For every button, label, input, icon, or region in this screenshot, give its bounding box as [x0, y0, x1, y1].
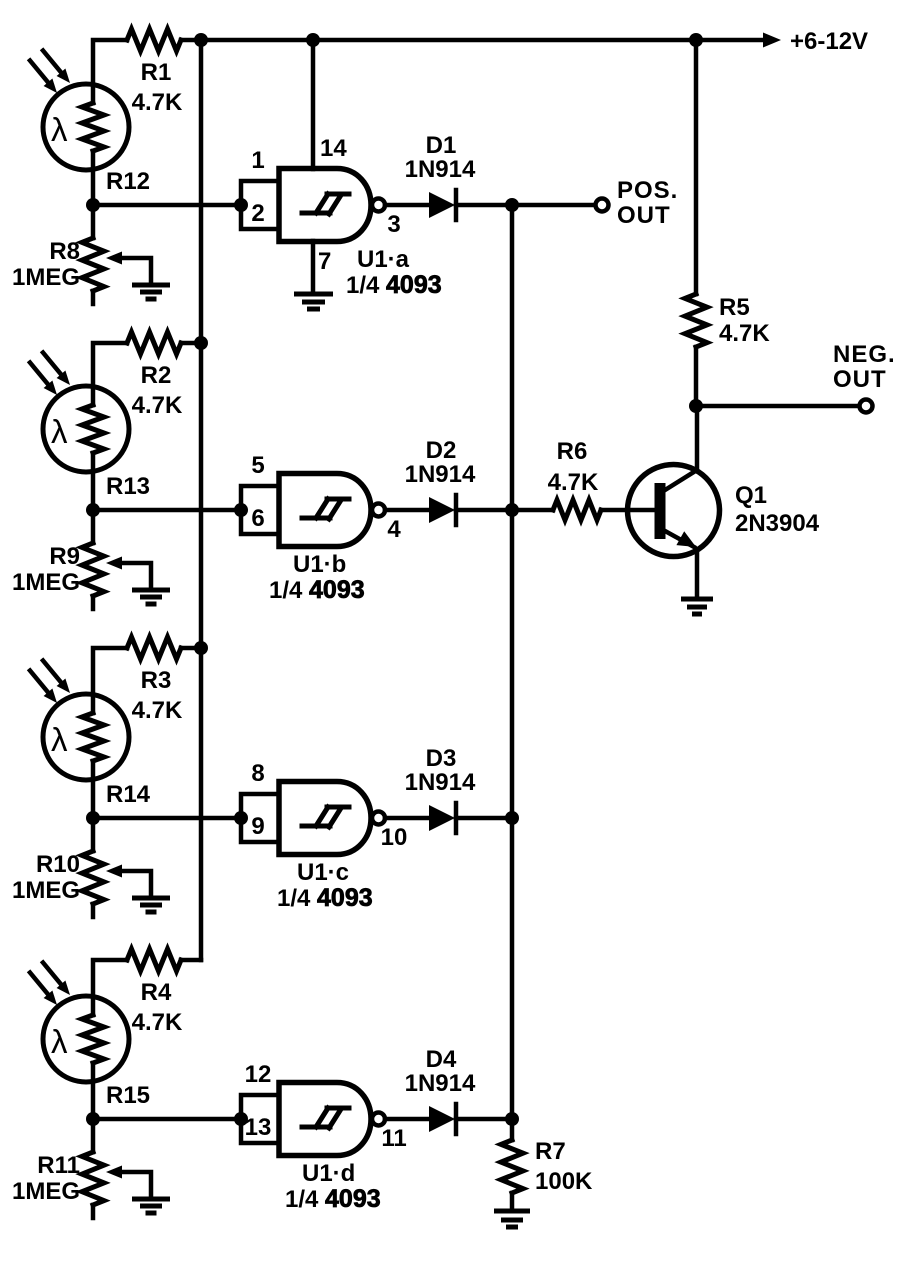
svg-text:D2: D2 [426, 437, 457, 464]
wire [181, 958, 201, 963]
photocell R15 (LDR) [30, 963, 150, 1110]
svg-text:14: 14 [320, 135, 347, 162]
node collector / NEG OUT [689, 399, 703, 413]
node gate input [234, 503, 248, 517]
photocell R13 (LDR) [30, 353, 150, 501]
wire rail to R5 [694, 40, 699, 294]
potentiometer R9 1MEG [12, 510, 151, 609]
transistor Q1 2N3904 [628, 406, 820, 598]
svg-text:13: 13 [245, 1114, 272, 1141]
svg-text:1N914: 1N914 [405, 461, 476, 488]
svg-text:U1·b: U1·b [293, 551, 346, 578]
svg-text:OUT: OUT [617, 202, 671, 229]
photocell R12 (LDR) [30, 51, 150, 196]
diode D4 1N914 [405, 1046, 476, 1134]
photocell R14 (LDR) [30, 661, 151, 809]
svg-text:D3: D3 [426, 745, 457, 772]
diode D2 1N914 [405, 437, 476, 525]
svg-text:R14: R14 [106, 781, 151, 808]
svg-text:1: 1 [251, 147, 264, 174]
ground (pot wiper) [132, 1199, 170, 1213]
wire section 2 top corner [93, 343, 127, 405]
svg-text:R10: R10 [36, 851, 80, 878]
node D4 bus junction [505, 1112, 519, 1126]
wire R6 to base [601, 508, 654, 513]
svg-text:2: 2 [251, 200, 264, 227]
svg-text:R9: R9 [49, 543, 80, 570]
wire D4 to bus [456, 1117, 512, 1122]
node R13/R9 junction [86, 503, 100, 517]
node gate input [234, 1112, 248, 1126]
svg-text:R6: R6 [557, 438, 588, 465]
node D2 bus junction [505, 503, 519, 517]
svg-text:4: 4 [387, 516, 401, 543]
wire pin 7 to ground [313, 241, 331, 293]
svg-text:4.7K: 4.7K [132, 89, 183, 116]
svg-text:R7: R7 [535, 1138, 566, 1165]
wire gate output [385, 508, 429, 513]
wire node to gate input [93, 816, 241, 821]
node R12/R8 junction [86, 198, 100, 212]
svg-text:12: 12 [245, 1061, 272, 1088]
svg-text:R4: R4 [141, 979, 172, 1006]
wire [91, 453, 96, 510]
svg-text:R2: R2 [141, 362, 172, 389]
wire section 3 top corner [93, 648, 127, 713]
svg-text:R8: R8 [49, 238, 80, 265]
svg-text:D4: D4 [426, 1046, 457, 1073]
svg-text:1MEG: 1MEG [12, 569, 80, 596]
wire [91, 151, 96, 205]
svg-text:2N3904: 2N3904 [735, 510, 820, 537]
node: bus to R2 [194, 336, 208, 350]
svg-text:λ: λ [51, 721, 68, 758]
svg-text:OUT: OUT [833, 366, 887, 393]
wire [181, 341, 201, 346]
svg-text:D1: D1 [426, 132, 457, 159]
svg-text:1MEG: 1MEG [12, 1178, 80, 1205]
resistor R5 4.7K [685, 294, 770, 347]
op-amp U1-c NAND gate 4093 [241, 760, 407, 912]
potentiometer R10 1MEG [12, 818, 151, 917]
svg-text:Q1: Q1 [735, 482, 767, 509]
wire left vertical bus [199, 40, 204, 960]
svg-text:4.7K: 4.7K [548, 469, 599, 496]
diode D1 1N914 [405, 132, 476, 220]
svg-text:U1·c: U1·c [297, 859, 349, 886]
svg-text:1/4 4093: 1/4 4093 [277, 884, 373, 912]
svg-text:4.7K: 4.7K [719, 320, 770, 347]
node D1 bus junction [505, 198, 519, 212]
wire node to gate input [93, 203, 241, 208]
svg-text:1/4 4093: 1/4 4093 [346, 271, 442, 299]
svg-text:4.7K: 4.7K [132, 1009, 183, 1036]
svg-text:NEG.: NEG. [833, 341, 896, 368]
svg-text:U1·a: U1·a [357, 246, 410, 273]
svg-text:3: 3 [387, 211, 400, 238]
node R14/R10 junction [86, 811, 100, 825]
svg-text:4.7K: 4.7K [132, 697, 183, 724]
wire gate output [385, 1117, 429, 1122]
svg-text:9: 9 [251, 813, 264, 840]
terminal NEG. OUT [833, 341, 896, 413]
svg-text:+6-12V: +6-12V [790, 28, 868, 55]
wire gate output [385, 816, 429, 821]
+6-12V supply arrow [763, 28, 868, 55]
wire D3 to bus [456, 816, 512, 821]
svg-text:7: 7 [318, 248, 331, 275]
wire [181, 646, 201, 651]
svg-text:1N914: 1N914 [405, 1070, 476, 1097]
svg-text:R15: R15 [106, 1082, 150, 1109]
svg-text:R11: R11 [37, 1152, 80, 1179]
svg-text:1/4 4093: 1/4 4093 [269, 576, 365, 604]
wire [91, 1063, 96, 1119]
ground (Q1 emitter) [681, 599, 713, 614]
potentiometer R11 1MEG [12, 1119, 151, 1218]
svg-text:6: 6 [251, 505, 264, 532]
wire pin 14 to rail [313, 40, 347, 169]
ground (pot wiper) [132, 898, 170, 912]
svg-text:R1: R1 [141, 59, 172, 86]
wire to NEG OUT [696, 404, 859, 409]
ground (pin 7) [294, 294, 333, 309]
op-amp U1-b NAND gate 4093 [241, 452, 401, 604]
svg-text:1/4 4093: 1/4 4093 [285, 1185, 381, 1213]
svg-text:1MEG: 1MEG [12, 877, 80, 904]
wire [91, 761, 96, 818]
svg-text:λ: λ [51, 111, 68, 148]
svg-text:λ: λ [51, 413, 68, 450]
node gate input [234, 811, 248, 825]
wire D2 to R6 [456, 508, 553, 513]
svg-text:R13: R13 [106, 473, 150, 500]
svg-text:8: 8 [251, 760, 264, 787]
svg-text:R12: R12 [106, 168, 150, 195]
op-amp U1-d NAND gate 4093 [241, 1061, 407, 1213]
resistor R7 100K [501, 1138, 593, 1211]
node R15/R11 junction [86, 1112, 100, 1126]
svg-text:1N914: 1N914 [405, 156, 476, 183]
op-amp U1-a NAND gate 4093 [241, 147, 442, 299]
node: rail junction to pin 14 [306, 33, 320, 47]
resistor R4 4.7K [127, 949, 183, 1036]
ground (pot wiper) [132, 285, 170, 299]
wire gate output [385, 203, 429, 208]
terminal POS. OUT [596, 177, 679, 229]
svg-text:R5: R5 [719, 294, 750, 321]
svg-text:1MEG: 1MEG [12, 264, 80, 291]
wire R5 to collector node [694, 347, 699, 406]
svg-text:11: 11 [381, 1125, 406, 1152]
svg-text:10: 10 [381, 824, 408, 851]
resistor R2 4.7K [127, 332, 183, 419]
wire node to gate input [93, 508, 241, 513]
resistor R3 4.7K [127, 637, 183, 724]
wire section 1 top corner [93, 40, 127, 103]
svg-text:4.7K: 4.7K [132, 392, 183, 419]
wire diode-output bus [510, 205, 515, 1140]
svg-text:U1·d: U1·d [302, 1160, 355, 1187]
svg-text:λ: λ [51, 1023, 68, 1060]
node: bus to R3 [194, 641, 208, 655]
wire section 4 top corner [93, 960, 127, 1015]
wire +V rail [181, 38, 766, 43]
node: rail junction to R5 [689, 33, 703, 47]
node gate input [234, 198, 248, 212]
ground (R7) [494, 1211, 530, 1227]
svg-text:100K: 100K [535, 1168, 593, 1195]
svg-text:1N914: 1N914 [405, 769, 476, 796]
node: rail junction to left bus [194, 33, 208, 47]
wire D1 to POS OUT [456, 203, 595, 208]
svg-text:5: 5 [251, 452, 264, 479]
svg-text:R3: R3 [141, 667, 172, 694]
potentiometer R8 1MEG [12, 205, 151, 304]
resistor R1 4.7K [127, 29, 183, 116]
diode D3 1N914 [405, 745, 476, 833]
svg-text:POS.: POS. [617, 177, 678, 204]
ground (pot wiper) [132, 590, 170, 604]
resistor R6 4.7K [548, 438, 601, 520]
node D3 bus junction [505, 811, 519, 825]
wire node to gate input [93, 1117, 241, 1122]
